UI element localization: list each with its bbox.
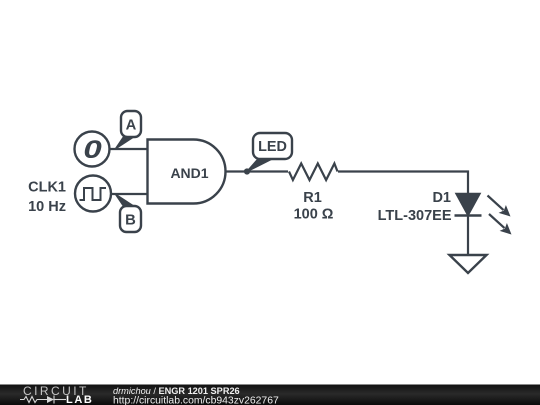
junction dot bbox=[244, 168, 250, 174]
wire source0 to AND1 input A bbox=[110, 148, 149, 150]
LED emission arrow 2 bbox=[489, 214, 512, 235]
node flag A bbox=[116, 111, 142, 149]
svg-text:0: 0 bbox=[83, 137, 101, 164]
node flag LED bbox=[247, 133, 292, 172]
svg-text:drmichou / ENGR 1201 SPR26: drmichou / ENGR 1201 SPR26 bbox=[113, 386, 240, 396]
LED D1 bbox=[455, 194, 482, 216]
wire CLK1 to AND1 input B bbox=[111, 193, 149, 195]
node flag B bbox=[116, 194, 142, 232]
footer bar bbox=[0, 385, 540, 405]
svg-text:CLK1: CLK1 bbox=[28, 180, 66, 196]
svg-text:LTL-307EE: LTL-307EE bbox=[378, 208, 452, 224]
ground bbox=[450, 255, 487, 273]
label CLK1 10 Hz bbox=[28, 180, 66, 216]
svg-text:10 Hz: 10 Hz bbox=[28, 199, 66, 215]
svg-text:AND1: AND1 bbox=[170, 165, 208, 181]
clock source CLK1 bbox=[75, 176, 111, 212]
svg-text:R1: R1 bbox=[303, 190, 322, 206]
AND gate AND1 bbox=[148, 140, 226, 204]
LED emission arrow 1 bbox=[488, 196, 511, 217]
svg-text:D1: D1 bbox=[432, 190, 451, 206]
digital constant source 0 bbox=[75, 132, 110, 167]
footer credit text bbox=[113, 386, 279, 405]
svg-text:LED: LED bbox=[258, 139, 287, 155]
label D1 LTL-307EE bbox=[378, 190, 452, 224]
svg-text:http://circuitlab.com/cb943zv2: http://circuitlab.com/cb943zv262767 bbox=[113, 396, 279, 405]
svg-text:LAB: LAB bbox=[66, 394, 93, 405]
label R1 value 100 ohm bbox=[294, 190, 334, 223]
wire resistor to corner and down to LED bbox=[338, 172, 468, 195]
svg-text:100 Ω: 100 Ω bbox=[294, 207, 334, 223]
svg-text:A: A bbox=[126, 118, 137, 134]
svg-text:B: B bbox=[125, 212, 136, 228]
wire AND1 output to resistor bbox=[226, 170, 289, 172]
resistor R1 bbox=[289, 164, 338, 181]
wire LED to ground bbox=[467, 216, 469, 256]
CircuitLab logo bbox=[20, 384, 93, 405]
